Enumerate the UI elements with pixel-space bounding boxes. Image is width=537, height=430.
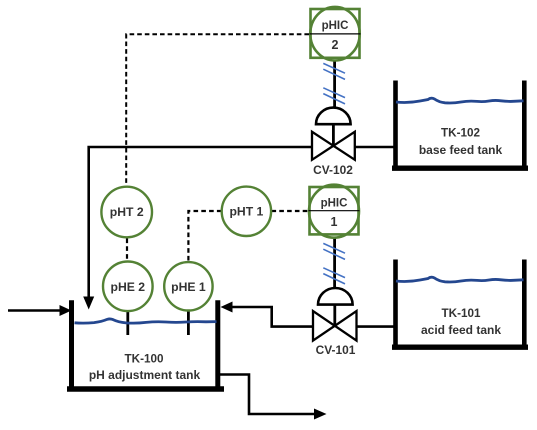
tank TK-100 pH adjustment tank (67, 300, 224, 389)
svg-text:base feed tank: base feed tank (419, 143, 503, 157)
electrode stem pHE-1 (187, 311, 190, 336)
signal line pHIC-1 to CV-101 actuator (323, 237, 345, 290)
svg-text:pH adjustment tank: pH adjustment tank (89, 368, 201, 382)
svg-text:pHE 1: pHE 1 (171, 280, 206, 294)
transmitter pHT-2 (101, 187, 152, 238)
control valve CV-102 (312, 108, 355, 177)
svg-text:pHE 2: pHE 2 (111, 280, 146, 294)
wire: dashed signal pHT-1 to pHE-1 (188, 211, 221, 261)
svg-text:pHT 2: pHT 2 (110, 205, 144, 219)
tank TK-101 acid feed tank (392, 260, 528, 348)
electrode stem pHE-2 (126, 311, 129, 335)
tank TK-102 base feed tank (392, 81, 528, 169)
pipe: TK-100 outflow (219, 375, 327, 420)
svg-text:pHIC: pHIC (321, 197, 348, 209)
svg-text:pHIC: pHIC (322, 20, 349, 32)
electrode pHE-2 (103, 262, 153, 312)
svg-text:2: 2 (332, 38, 339, 52)
controller pHIC-2 (310, 7, 361, 61)
svg-text:TK-101: TK-101 (442, 307, 481, 320)
svg-text:CV-101: CV-101 (316, 343, 356, 357)
pipe: CV-101 outlet into TK-100 (221, 302, 313, 327)
pipe: TK-102 to CV-102 inlet (355, 146, 394, 149)
wire: dashed signal pHIC-2 to pHT-2 (126, 34, 309, 185)
svg-text:1: 1 (331, 215, 338, 229)
pipe: feed arrow into TK-100 (8, 305, 72, 316)
svg-text:CV-102: CV-102 (313, 163, 353, 177)
pipe: TK-101 to CV-101 inlet (357, 325, 395, 328)
pipe: CV-102 outlet to recycle line into TK-100 (83, 147, 311, 310)
wire: dashed signal pHT-1 to pHIC-1 (272, 210, 309, 212)
svg-text:acid feed tank: acid feed tank (421, 323, 501, 337)
svg-text:TK-102: TK-102 (441, 127, 480, 140)
controller pHIC-1 (309, 185, 360, 238)
svg-text:pHT 1: pHT 1 (229, 205, 263, 219)
electrode pHE-1 (164, 262, 212, 310)
signal line pHIC-2 to CV-102 actuator (323, 60, 345, 109)
transmitter pHT-1 (222, 187, 271, 236)
svg-text:TK-100: TK-100 (125, 353, 164, 366)
control valve CV-101 (313, 288, 357, 357)
wire: dashed signal pHT-2 to pHE-2 (126, 239, 128, 261)
